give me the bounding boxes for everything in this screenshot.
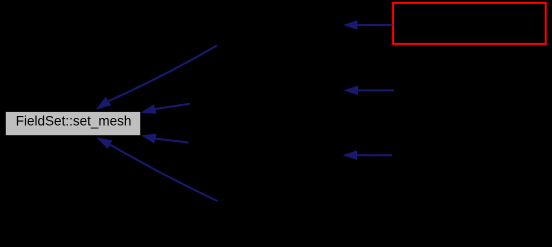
- node FieldSet::set_mesh (grey filled box): [6, 112, 140, 135]
- edge line from middle node 2 to grey box top-right corner: [141, 104, 190, 114]
- edge line from middle node 3 to grey box bottom-right corner: [141, 134, 189, 144]
- edge arrow to middle node 3 (horizontal, y=155.2): [343, 150, 393, 160]
- edge arrow from red box to middle node 1 (horizontal, y=25): [343, 20, 393, 30]
- edge curve from middle node 1 down-left to grey box top: [96, 46, 217, 110]
- edge arrow to middle node 2 (horizontal, y=90.4): [344, 86, 395, 96]
- edge curve from middle node 4 up-left to grey box bottom: [96, 137, 217, 201]
- node red box (highlighted caller, black fill, red border): [393, 3, 546, 44]
- svg-text:FieldSet::set_mesh: FieldSet::set_mesh: [16, 114, 132, 129]
